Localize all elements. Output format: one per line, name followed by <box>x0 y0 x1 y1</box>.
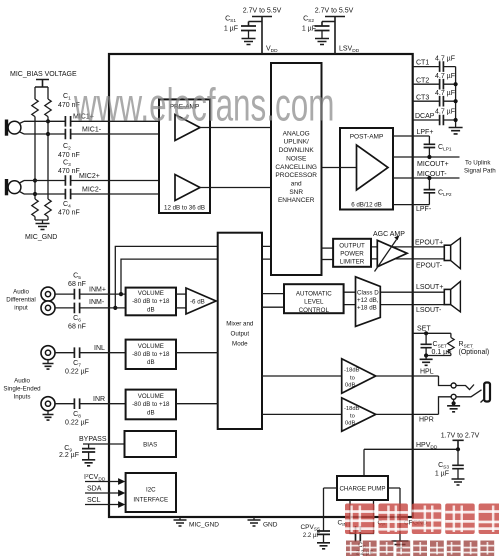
wire MICOUT+ <box>393 156 460 158</box>
capacitor C4 470nF <box>58 189 80 217</box>
OUTPUT POWER LIMITER block <box>333 239 371 267</box>
svg-text:GND: GND <box>263 521 278 528</box>
op-amp HPR -18dB to 0dB <box>342 398 376 431</box>
wire volume2 to mixer <box>176 352 218 354</box>
svg-text:Class D: Class D <box>357 290 379 297</box>
wire processor to post-amp <box>322 167 357 169</box>
pin SET wire <box>413 332 451 334</box>
svg-text:Signal Path: Signal Path <box>464 168 496 175</box>
wire HPR output <box>376 413 439 415</box>
svg-text:VOLUME: VOLUME <box>138 343 164 350</box>
svg-text:ANALOG: ANALOG <box>283 130 310 137</box>
svg-text:0dB: 0dB <box>345 421 355 427</box>
capacitor C1 470nF <box>58 93 80 127</box>
svg-text:470 nF: 470 nF <box>58 168 80 175</box>
PRE-AMP block <box>159 99 210 213</box>
capacitor C2 470nF <box>58 129 80 159</box>
svg-text:OUTPUT: OUTPUT <box>339 242 365 249</box>
bias resistor lower-left <box>32 199 38 220</box>
pin LPF- wire <box>393 204 429 206</box>
svg-text:dB: dB <box>147 359 155 366</box>
svg-text:Output: Output <box>231 330 250 337</box>
svg-text:EPOUT+: EPOUT+ <box>415 239 443 246</box>
label To Uplink Signal Path <box>464 159 496 174</box>
svg-text:VOLUME: VOLUME <box>138 393 164 400</box>
watermark red slogan line <box>346 541 494 557</box>
ground CPVSS <box>317 543 330 549</box>
svg-text:SDA: SDA <box>87 486 102 493</box>
svg-text:NOISE: NOISE <box>286 155 307 162</box>
ground CS3 <box>452 479 465 485</box>
svg-text:(Optional): (Optional) <box>459 349 490 356</box>
svg-text:Audio: Audio <box>14 377 30 384</box>
svg-text:MICOUT-: MICOUT- <box>417 171 447 178</box>
junction dot CLP1 MICOUT+ <box>427 155 431 159</box>
junction dot SET <box>424 331 428 335</box>
svg-text:HPL: HPL <box>420 368 434 375</box>
svg-text:MICOUT+: MICOUT+ <box>417 161 449 168</box>
svg-text:0.22 µF: 0.22 µF <box>65 368 89 375</box>
wire EPOUT+ through AGC amp <box>371 246 444 248</box>
capacitor CS2 1uF <box>302 16 330 39</box>
svg-text:www.elecfans.com: www.elecfans.com <box>73 80 334 131</box>
op-amp HPL -18dB to 0dB <box>342 359 376 394</box>
bias resistor upper-right <box>45 87 51 134</box>
svg-text:1 µF: 1 µF <box>435 470 449 477</box>
capacitor C9 2.2uF <box>59 444 95 460</box>
wire charge pump to CPVSS <box>324 488 338 517</box>
label Audio Differential input <box>6 289 35 312</box>
svg-text:CHARGE PUMP: CHARGE PUMP <box>339 486 385 493</box>
pin LPF+ wire <box>393 136 429 144</box>
pin CP wire <box>361 500 374 534</box>
wire preamp1 output to processor <box>200 127 271 129</box>
bias resistor lower-right <box>45 134 51 220</box>
capacitor C3 470nF <box>58 160 80 186</box>
supply VDD 2.7V to 5.5V <box>243 8 282 55</box>
pin CT3 wire and capacitor 4.7uF <box>413 90 456 107</box>
pin DCAP wire and capacitor 4.7uF <box>413 109 456 126</box>
svg-text:INM+: INM+ <box>89 287 106 294</box>
ground for C9 <box>82 460 95 466</box>
junction dot HPVDD <box>456 447 460 451</box>
watermark red characters <box>345 504 499 535</box>
svg-text:MIC2+: MIC2+ <box>79 173 100 180</box>
svg-text:68 nF: 68 nF <box>68 281 86 288</box>
capacitor CC 2.2uF flying <box>356 526 374 557</box>
svg-text:0dB: 0dB <box>345 382 355 388</box>
wire MIC1- <box>24 133 175 135</box>
op-amp postamp <box>357 145 389 190</box>
wire preamp2 output to processor <box>200 187 271 189</box>
svg-text:+18 dB: +18 dB <box>357 304 377 311</box>
MIC_GND ground bottom of bias network <box>25 220 57 241</box>
svg-text:12 dB to 36 dB: 12 dB to 36 dB <box>164 204 205 211</box>
svg-text:dB: dB <box>147 306 155 313</box>
svg-text:-18dB: -18dB <box>344 368 360 374</box>
capacitor C7 0.22uF <box>65 347 89 375</box>
bias resistor upper-left <box>32 87 38 199</box>
wire HPVDD <box>364 448 458 450</box>
capacitor CS3 1uF <box>435 449 464 479</box>
svg-text:CT2: CT2 <box>416 77 429 84</box>
svg-text:2.7V to 5.5V: 2.7V to 5.5V <box>315 8 354 15</box>
svg-text:-18dB: -18dB <box>344 406 360 412</box>
svg-text:To Uplink: To Uplink <box>465 159 491 166</box>
svg-text:CT3: CT3 <box>416 94 429 101</box>
wire volume1 to -6dB amp lower <box>176 307 186 309</box>
pin I2CVDD wire with arrow <box>84 473 125 485</box>
VOLUME block 3 <box>126 390 176 420</box>
svg-text:LSOUT+: LSOUT+ <box>416 284 443 291</box>
junction dots bias network <box>33 119 50 196</box>
svg-text:LSOUT-: LSOUT- <box>416 307 442 314</box>
wire volume3 to mixer <box>176 403 218 405</box>
svg-text:INTERFACE: INTERFACE <box>133 496 168 503</box>
op-amp preamp1 <box>175 115 200 141</box>
svg-text:MIC_BIAS VOLTAGE: MIC_BIAS VOLTAGE <box>10 71 77 78</box>
CHARGE PUMP block <box>337 476 388 500</box>
ground CPGND <box>392 541 409 548</box>
junction dots CT bus <box>454 82 458 122</box>
ground for CS2 <box>315 39 329 45</box>
svg-text:6 dB/12 dB: 6 dB/12 dB <box>351 202 382 209</box>
microphone MIC2 <box>7 179 25 195</box>
ground GND bottom edge <box>248 517 278 528</box>
svg-text:0.22 µF: 0.22 µF <box>65 419 89 426</box>
ground for CS1 <box>242 39 256 45</box>
wire INR <box>55 403 126 405</box>
svg-text:Differential: Differential <box>6 297 35 304</box>
wire MICOUT- <box>393 177 460 179</box>
wire mixer to ALC upper <box>262 293 284 295</box>
wire mixer pass-through INM+ to processor <box>121 259 271 294</box>
wire mixer to HPR amp <box>262 413 342 415</box>
svg-text:Mixer and: Mixer and <box>226 320 254 327</box>
svg-text:CONTROL: CONTROL <box>299 307 330 314</box>
svg-text:Inputs: Inputs <box>14 393 31 400</box>
wire HPVDD to charge pump <box>363 449 365 476</box>
VOLUME block 1 <box>126 288 176 316</box>
svg-text:INM-: INM- <box>89 299 105 306</box>
svg-text:LPF+: LPF+ <box>417 129 434 136</box>
wire mixer to ALC lower <box>262 306 284 308</box>
audio single-ended input connector INL <box>41 346 55 369</box>
svg-text:LIMITER: LIMITER <box>340 259 365 266</box>
svg-text:ENHANCER: ENHANCER <box>278 197 315 204</box>
svg-text:AGC AMP: AGC AMP <box>373 231 405 238</box>
svg-text:-6 dB: -6 dB <box>190 298 205 305</box>
svg-text:CT1: CT1 <box>416 60 429 67</box>
svg-text:1 µF: 1 µF <box>224 26 238 33</box>
pin CPVSS external capacitor 2.2uF <box>300 517 330 543</box>
svg-text:1.7V to 2.7V: 1.7V to 2.7V <box>441 433 480 440</box>
svg-text:2.2 µF: 2.2 µF <box>59 452 79 459</box>
svg-text:470 nF: 470 nF <box>58 210 80 217</box>
wire LSOUT- through Class D <box>344 304 445 306</box>
svg-text:to: to <box>350 414 355 420</box>
headphone jack wiring <box>439 376 482 414</box>
svg-text:VOLUME: VOLUME <box>138 290 164 297</box>
svg-text:to: to <box>350 375 355 381</box>
headphone plug <box>481 383 491 403</box>
svg-text:BYPASS: BYPASS <box>79 436 107 443</box>
ground MIC_GND bottom edge <box>174 517 220 528</box>
audio differential input connector INM- <box>41 301 55 315</box>
VOLUME block 2 <box>126 340 176 369</box>
capacitor C8 0.22uF <box>65 398 89 426</box>
svg-text:AUTOMATIC: AUTOMATIC <box>296 290 332 297</box>
wire charge pump to CPGND <box>388 488 400 541</box>
pin CIN wire <box>350 500 355 534</box>
speaker EPOUT <box>444 238 460 269</box>
capacitor CS1 1uF <box>224 16 256 39</box>
svg-text:HPR: HPR <box>419 416 434 423</box>
svg-text:2.7V to 5.5V: 2.7V to 5.5V <box>243 8 282 15</box>
ground CT bus <box>449 128 463 134</box>
MIC_BIAS VOLTAGE supply <box>10 71 77 87</box>
microphone MIC1 <box>7 120 25 136</box>
op-amp AGC variable gain <box>375 235 408 271</box>
audio differential input connector INM+ <box>41 287 55 301</box>
svg-text:EPOUT-: EPOUT- <box>416 262 443 269</box>
svg-text:SCL: SCL <box>87 497 101 504</box>
wire processor to output power limiter lower <box>322 259 334 261</box>
svg-text:INL: INL <box>94 345 105 352</box>
op-amp preamp2 <box>175 175 200 201</box>
svg-text:LEVEL: LEVEL <box>304 299 324 306</box>
wire MIC2+ <box>24 180 175 182</box>
resistor RSET optional <box>426 333 489 356</box>
svg-text:UPLINK/: UPLINK/ <box>284 139 309 146</box>
junction dot CLP2 MICOUT- <box>427 176 431 180</box>
chip outline <box>109 54 413 517</box>
supply HPVDD 1.7V to 2.7V <box>441 433 480 450</box>
wire mixer pass-through INM- to processor <box>115 246 271 308</box>
svg-text:Audio: Audio <box>13 289 29 296</box>
svg-text:input: input <box>14 305 28 312</box>
wire HPL output <box>376 375 439 377</box>
svg-text:+12 dB,: +12 dB, <box>357 297 379 304</box>
svg-text:and: and <box>291 181 302 188</box>
svg-text:LPF-: LPF- <box>416 206 432 213</box>
svg-text:1 µF: 1 µF <box>302 26 316 33</box>
capacitor CSET 0.1uF <box>421 333 452 356</box>
ground CSET <box>425 356 427 360</box>
svg-text:MIC2-: MIC2- <box>82 186 102 193</box>
svg-text:MIC_GND: MIC_GND <box>189 521 219 528</box>
capacitor CLP2 <box>424 178 452 205</box>
Mixer and Output Mode block <box>218 233 262 429</box>
Class D amplifier +12dB +18dB <box>356 277 381 327</box>
svg-text:CANCELLING: CANCELLING <box>275 164 317 171</box>
svg-text:4.7 µF: 4.7 µF <box>435 109 455 116</box>
svg-text:4.7 µF: 4.7 µF <box>435 55 455 62</box>
svg-text:DCAP: DCAP <box>415 113 435 120</box>
wire EPOUT- through AGC amp <box>371 258 444 260</box>
svg-text:BIAS: BIAS <box>143 441 157 448</box>
supply LSVDD 2.7V to 5.5V <box>315 8 354 55</box>
wire MIC1+ <box>24 120 175 122</box>
pin SDA wire with arrow <box>85 486 125 497</box>
wire -6dB amp to mixer <box>216 300 218 302</box>
POST-AMP block <box>340 128 393 210</box>
pin BYPASS wire <box>83 443 125 445</box>
svg-text:4.7 µF: 4.7 µF <box>435 90 455 97</box>
svg-text:MIC_GND: MIC_GND <box>25 234 57 241</box>
svg-text:SNR: SNR <box>289 189 303 196</box>
op-amp -6 dB <box>186 288 216 314</box>
svg-text:POST-AMP: POST-AMP <box>350 133 384 140</box>
svg-text:470 nF: 470 nF <box>58 152 80 159</box>
capacitor C5 68nF <box>68 272 86 299</box>
wire INL <box>55 352 126 354</box>
wire INM- <box>55 307 126 309</box>
label Audio Single-Ended Inputs <box>3 377 41 400</box>
audio single-ended input connector INR <box>41 397 55 420</box>
svg-text:POWER: POWER <box>340 251 364 258</box>
headphone jack ground contact <box>447 399 460 412</box>
speaker LSOUT <box>444 281 460 312</box>
BIAS block <box>125 431 177 457</box>
AUTOMATIC LEVEL CONTROL block <box>284 284 344 314</box>
svg-text:Mode: Mode <box>232 340 248 347</box>
svg-text:-80 dB to +18: -80 dB to +18 <box>132 351 170 358</box>
svg-text:2.2 µF: 2.2 µF <box>303 533 320 539</box>
junction dot INM+ <box>119 292 123 296</box>
wire processor to output power limiter upper <box>322 247 334 249</box>
capacitor C6 68nF <box>68 303 86 331</box>
wire MIC2- <box>24 193 175 195</box>
svg-text:Single-Ended: Single-Ended <box>3 385 41 392</box>
capacitor CLP1 <box>424 144 452 157</box>
wire volume1 to -6dB amp upper <box>176 293 186 295</box>
svg-text:I2C: I2C <box>146 486 156 493</box>
svg-text:-80 dB to +18: -80 dB to +18 <box>132 298 170 305</box>
wire INM+ <box>55 293 126 295</box>
ANALOG UPLINK/DOWNLINK NOISE CANCELLING PROCESSOR block U1 <box>271 63 322 275</box>
svg-text:DOWNLINK: DOWNLINK <box>279 147 315 154</box>
wire LSOUT+ through Class D <box>344 291 445 293</box>
svg-text:68 nF: 68 nF <box>68 324 86 331</box>
svg-text:SET: SET <box>417 326 431 333</box>
pin CT2 wire and capacitor 4.7uF <box>413 73 456 90</box>
junction dot INM- <box>113 306 117 310</box>
wire CT bus <box>455 67 457 128</box>
svg-text:-80 dB to +18: -80 dB to +18 <box>132 401 170 408</box>
junction dot CSET bottom <box>424 353 428 357</box>
wire mixer to HPL amp <box>262 375 342 377</box>
pin CT1 wire and capacitor 4.7uF <box>413 55 456 72</box>
svg-text:PROCESSOR: PROCESSOR <box>275 172 317 179</box>
svg-text:dB: dB <box>147 409 155 416</box>
pin SCL wire with arrow <box>85 497 125 508</box>
svg-text:4.7 µF: 4.7 µF <box>435 73 455 80</box>
I2C INTERFACE block <box>126 473 176 512</box>
svg-text:INR: INR <box>93 396 105 403</box>
